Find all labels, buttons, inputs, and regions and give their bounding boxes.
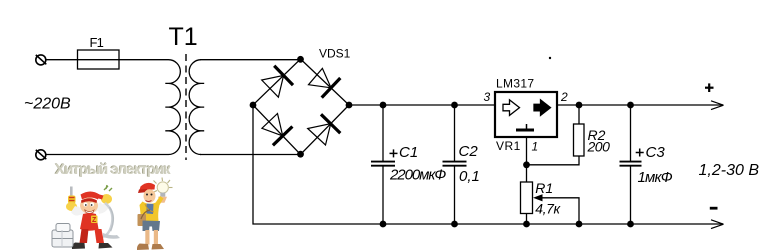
node C1 top xyxy=(380,102,387,109)
node C2 bottom xyxy=(451,221,458,228)
wire secondary bottom to bridge xyxy=(200,154,301,156)
wire regulator output rail xyxy=(557,104,723,106)
diode VDS1 bottom-left xyxy=(262,114,293,146)
svg-text:1,2-30 В: 1,2-30 В xyxy=(699,162,760,179)
regulator output arrow (solid) xyxy=(534,100,551,116)
wire adjust to R2 bottom xyxy=(527,156,580,165)
label plus xyxy=(705,83,714,92)
capacitor C1 xyxy=(371,105,398,224)
svg-text:200: 200 xyxy=(587,139,611,155)
terminal X1 top input xyxy=(36,55,47,65)
node C2 top xyxy=(451,102,458,109)
node bridge bottom xyxy=(297,151,304,158)
svg-text:F1: F1 xyxy=(90,35,104,50)
transformer T1 primary winding xyxy=(165,60,180,155)
svg-text:0,1: 0,1 xyxy=(459,168,480,185)
svg-text:Z: Z xyxy=(92,217,97,224)
output arrow plus xyxy=(711,101,724,110)
mascot left electrician xyxy=(52,185,120,249)
potentiometer R1 xyxy=(521,182,533,224)
svg-text:1: 1 xyxy=(532,140,539,154)
svg-text:~220В: ~220В xyxy=(24,96,71,113)
node bridge right xyxy=(346,102,353,109)
capacitor C2 xyxy=(443,105,467,224)
node adjust xyxy=(523,161,530,168)
watermark xyxy=(54,161,172,179)
svg-text:VDS1: VDS1 xyxy=(319,47,351,61)
wire plus rail bridge to regulator xyxy=(349,104,495,106)
wire secondary top to bridge xyxy=(200,59,301,61)
svg-text:VR1: VR1 xyxy=(496,139,521,153)
svg-text:T1: T1 xyxy=(169,23,198,51)
regulator input arrow (open) xyxy=(503,100,520,116)
diode VDS1 top-right xyxy=(309,68,341,97)
svg-text:4,7к: 4,7к xyxy=(535,200,561,216)
label minus xyxy=(710,207,718,210)
regulator VR1 LM317 body xyxy=(495,92,557,137)
fuse F1 xyxy=(78,50,120,69)
transformer T1 secondary winding xyxy=(189,60,204,155)
svg-text:3: 3 xyxy=(484,90,491,104)
node R2 top xyxy=(576,102,583,109)
node C3 top xyxy=(627,102,634,109)
diode VDS1 top-left xyxy=(262,66,293,98)
svg-text:2200мкФ: 2200мкФ xyxy=(389,166,446,183)
stray dot xyxy=(549,57,551,59)
svg-text:1мкФ: 1мкФ xyxy=(638,169,673,186)
terminal X2 bottom input xyxy=(36,150,47,160)
node bridge top xyxy=(297,56,304,63)
node bridge left xyxy=(250,102,257,109)
svg-text:LM317: LM317 xyxy=(496,77,534,91)
output arrow minus xyxy=(711,220,724,229)
potentiometer R1 wiper xyxy=(533,194,579,224)
svg-text:C1: C1 xyxy=(399,144,418,161)
wire bottom input to transformer xyxy=(46,154,169,156)
node C1 bottom xyxy=(380,221,387,228)
wire bottom rail xyxy=(383,223,723,225)
node C3 bottom xyxy=(627,221,634,228)
wire bridge minus down xyxy=(253,105,383,224)
bridge rectifier VDS1 frame xyxy=(253,59,349,155)
svg-text:Хитрый электрик: Хитрый электрик xyxy=(55,161,171,178)
svg-text:C2: C2 xyxy=(459,143,479,160)
svg-text:2: 2 xyxy=(560,90,568,104)
resistor R2 xyxy=(574,105,585,156)
regulator adjust symbol xyxy=(516,124,534,130)
wire adjust pin down xyxy=(526,137,528,182)
node wiper bottom xyxy=(576,221,583,228)
wire top input to transformer xyxy=(46,59,169,61)
capacitor C3 xyxy=(620,105,644,224)
diode VDS1 bottom-right xyxy=(308,114,341,145)
svg-text:R1: R1 xyxy=(535,180,553,196)
transformer T1 core xyxy=(185,54,187,160)
mascot right electrician xyxy=(137,178,173,251)
svg-text:C3: C3 xyxy=(646,144,666,161)
node R1 bottom xyxy=(523,221,530,228)
